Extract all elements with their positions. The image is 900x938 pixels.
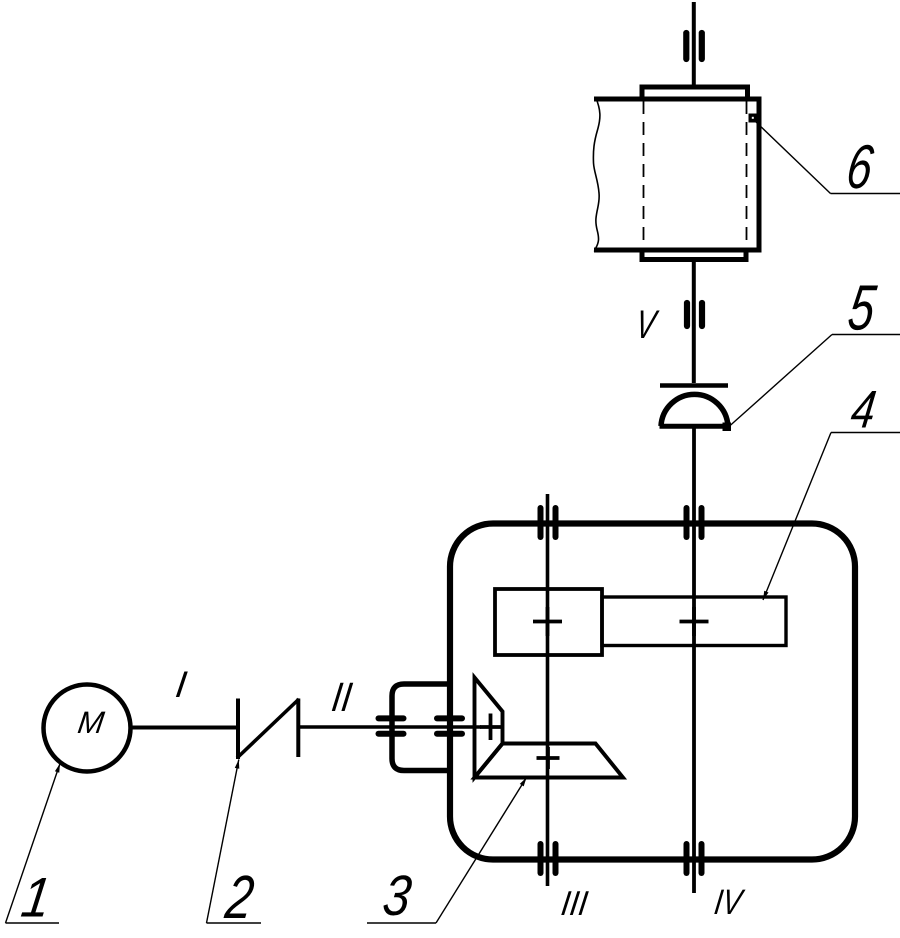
bearing shaft III top: [538, 508, 544, 537]
gear G3 on shaft III: [495, 589, 602, 655]
coupling C5 dome: [661, 394, 728, 426]
svg-text:I: I: [173, 663, 189, 705]
drum top flange: [642, 87, 748, 99]
shaft III: [546, 494, 550, 886]
leader shelf 1: [6, 922, 60, 924]
drum hidden line right: [746, 101, 748, 248]
svg-text:III: III: [559, 884, 590, 923]
leader line 3: [436, 778, 527, 924]
leader line 1: [6, 764, 61, 924]
bearing B1 on shaft II (outer): [379, 715, 404, 721]
svg-text:1: 1: [18, 867, 55, 929]
leader shelf 5: [832, 334, 900, 336]
bearing shaft V (below drum): [684, 303, 690, 326]
svg-text:4: 4: [848, 380, 880, 439]
coupling C2 diagonal: [237, 699, 299, 758]
leader arrowhead 2: [235, 759, 241, 769]
leader shelf 2: [207, 922, 262, 924]
shaft I: [131, 726, 239, 730]
motor M: [44, 685, 131, 772]
svg-text:2: 2: [221, 863, 258, 932]
leader line 4: [763, 433, 831, 601]
leader line 2: [207, 760, 239, 924]
coupling C2 left half: [236, 699, 240, 760]
gear G4 on shaft IV: [602, 597, 786, 646]
shaft V middle segment: [692, 259, 696, 383]
leader attach square 6: [749, 114, 758, 123]
bearing shaft V (above drum): [683, 33, 689, 59]
shaft V top segment: [692, 2, 696, 87]
bearing shaft IV bottom: [684, 844, 690, 873]
leader line 6: [755, 121, 831, 194]
svg-text:M: M: [76, 705, 107, 740]
coupling C2 right half: [296, 699, 300, 758]
leader arrowhead 1: [55, 763, 62, 773]
svg-text:V: V: [633, 303, 661, 347]
drum bottom flange: [642, 250, 746, 260]
leader arrow square at coupling C5: [723, 423, 732, 432]
bearing B2 on shaft II (at wall): [437, 715, 462, 721]
leader line 5: [729, 335, 832, 427]
bearing shaft IV top: [684, 508, 690, 537]
center mark gear G3: [533, 620, 562, 624]
leader shelf 6: [831, 193, 900, 195]
svg-text:IV: IV: [712, 882, 747, 922]
center mark bevel pinion: [480, 725, 501, 729]
bearing shaft III bottom: [538, 844, 544, 873]
svg-text:6: 6: [843, 132, 878, 202]
svg-text:5: 5: [844, 271, 880, 343]
gearbox housing: [450, 524, 855, 860]
svg-text:II: II: [329, 675, 355, 721]
drum break (wavy) line: [593, 97, 600, 252]
leader arrowhead 3: [520, 776, 529, 786]
coupling C5 chord: [660, 424, 730, 429]
drum body (top, right, bottom edges): [594, 99, 759, 250]
svg-text:3: 3: [379, 865, 415, 928]
leader shelf 3: [367, 922, 436, 924]
bevel wheel on shaft III: [475, 744, 624, 778]
leader shelf 4: [831, 432, 900, 434]
center mark gear G4: [680, 620, 709, 624]
input bearing housing: [392, 684, 449, 771]
shaft IV: [692, 429, 696, 894]
drum hidden line left: [643, 101, 645, 248]
center mark bevel wheel: [537, 756, 560, 760]
shaft II: [298, 725, 481, 729]
bevel pinion on shaft II: [475, 678, 503, 778]
leader arrowhead 4: [761, 591, 769, 601]
coupling C5 upper bar: [660, 383, 728, 388]
